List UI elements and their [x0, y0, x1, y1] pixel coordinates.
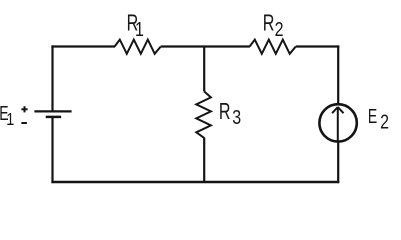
- wire top-middle (R1 to node T1 to R2): [161, 45, 250, 47]
- svg-text:R: R: [263, 11, 275, 36]
- resistor R1: [115, 40, 161, 54]
- wire middle-upper (node T1 down to R3): [203, 47, 205, 92]
- wire top-right (R2 to top-right corner): [296, 45, 340, 47]
- plus polarity mark of E1: [21, 106, 27, 112]
- resistor R3: [196, 91, 211, 138]
- battery E1 positive plate: [34, 110, 71, 112]
- wire bottom (bottom-left corner to bottom-right corner): [51, 181, 339, 183]
- label E1: [0, 102, 14, 130]
- minus polarity mark of E1: [21, 122, 27, 124]
- svg-text:2: 2: [275, 18, 284, 40]
- label R1: [127, 11, 144, 41]
- wire right-upper (top-right corner down to current source): [337, 45, 339, 104]
- svg-text:1: 1: [6, 109, 14, 129]
- svg-text:3: 3: [232, 106, 241, 128]
- battery E1 negative plate: [46, 116, 61, 119]
- wire middle-lower (R3 down to bottom node T2): [203, 137, 205, 183]
- label R3: [219, 99, 241, 128]
- resistor R2: [250, 40, 296, 54]
- label R2: [263, 11, 284, 41]
- wire top-left (node A to R1): [51, 45, 115, 47]
- current source E2 circle: [319, 104, 356, 141]
- current source E2 arrow: [332, 107, 343, 140]
- wire left-upper (top-left corner down to battery): [51, 45, 53, 111]
- svg-text:2: 2: [380, 111, 389, 133]
- svg-text:1: 1: [135, 18, 144, 40]
- label E2: [368, 104, 389, 133]
- wire left-lower (battery down to bottom-left corner): [51, 117, 53, 183]
- svg-text:R: R: [219, 99, 231, 124]
- wire right-lower (current source down to bottom-right corner): [337, 141, 339, 183]
- svg-text:E: E: [368, 104, 377, 127]
